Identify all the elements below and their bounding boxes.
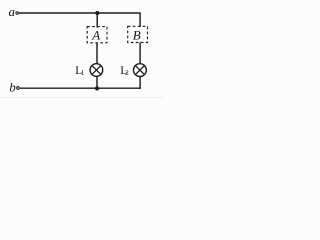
- lamp L2: [134, 64, 147, 77]
- svg-text:A: A: [91, 27, 100, 42]
- scan artifact line: [0, 97, 163, 99]
- meter box A (dashed): [87, 27, 107, 43]
- svg-text:a: a: [9, 4, 16, 19]
- lamp L1: [90, 64, 103, 77]
- svg-text:1: 1: [81, 69, 85, 77]
- junction top node: [95, 11, 99, 15]
- junction bottom node: [95, 86, 99, 90]
- meter box B (dashed): [128, 26, 148, 42]
- wire junction down to box A: [96, 13, 98, 28]
- svg-text:B: B: [133, 27, 141, 42]
- wire right vertical down to box B: [139, 13, 141, 27]
- wire bottom horizontal b to corner: [20, 87, 141, 89]
- svg-text:b: b: [9, 80, 16, 95]
- wire box B to lamp L2: [139, 43, 141, 64]
- terminal b: [17, 87, 20, 90]
- wire lamp L2 to bottom corner: [139, 77, 141, 89]
- terminal a: [16, 12, 19, 15]
- wire top horizontal a to corner: [19, 12, 141, 14]
- svg-text:2: 2: [125, 69, 129, 77]
- wire lamp L1 to bottom: [96, 76, 98, 88]
- wire box A to lamp L1: [96, 43, 98, 64]
- background: [0, 0, 163, 100]
